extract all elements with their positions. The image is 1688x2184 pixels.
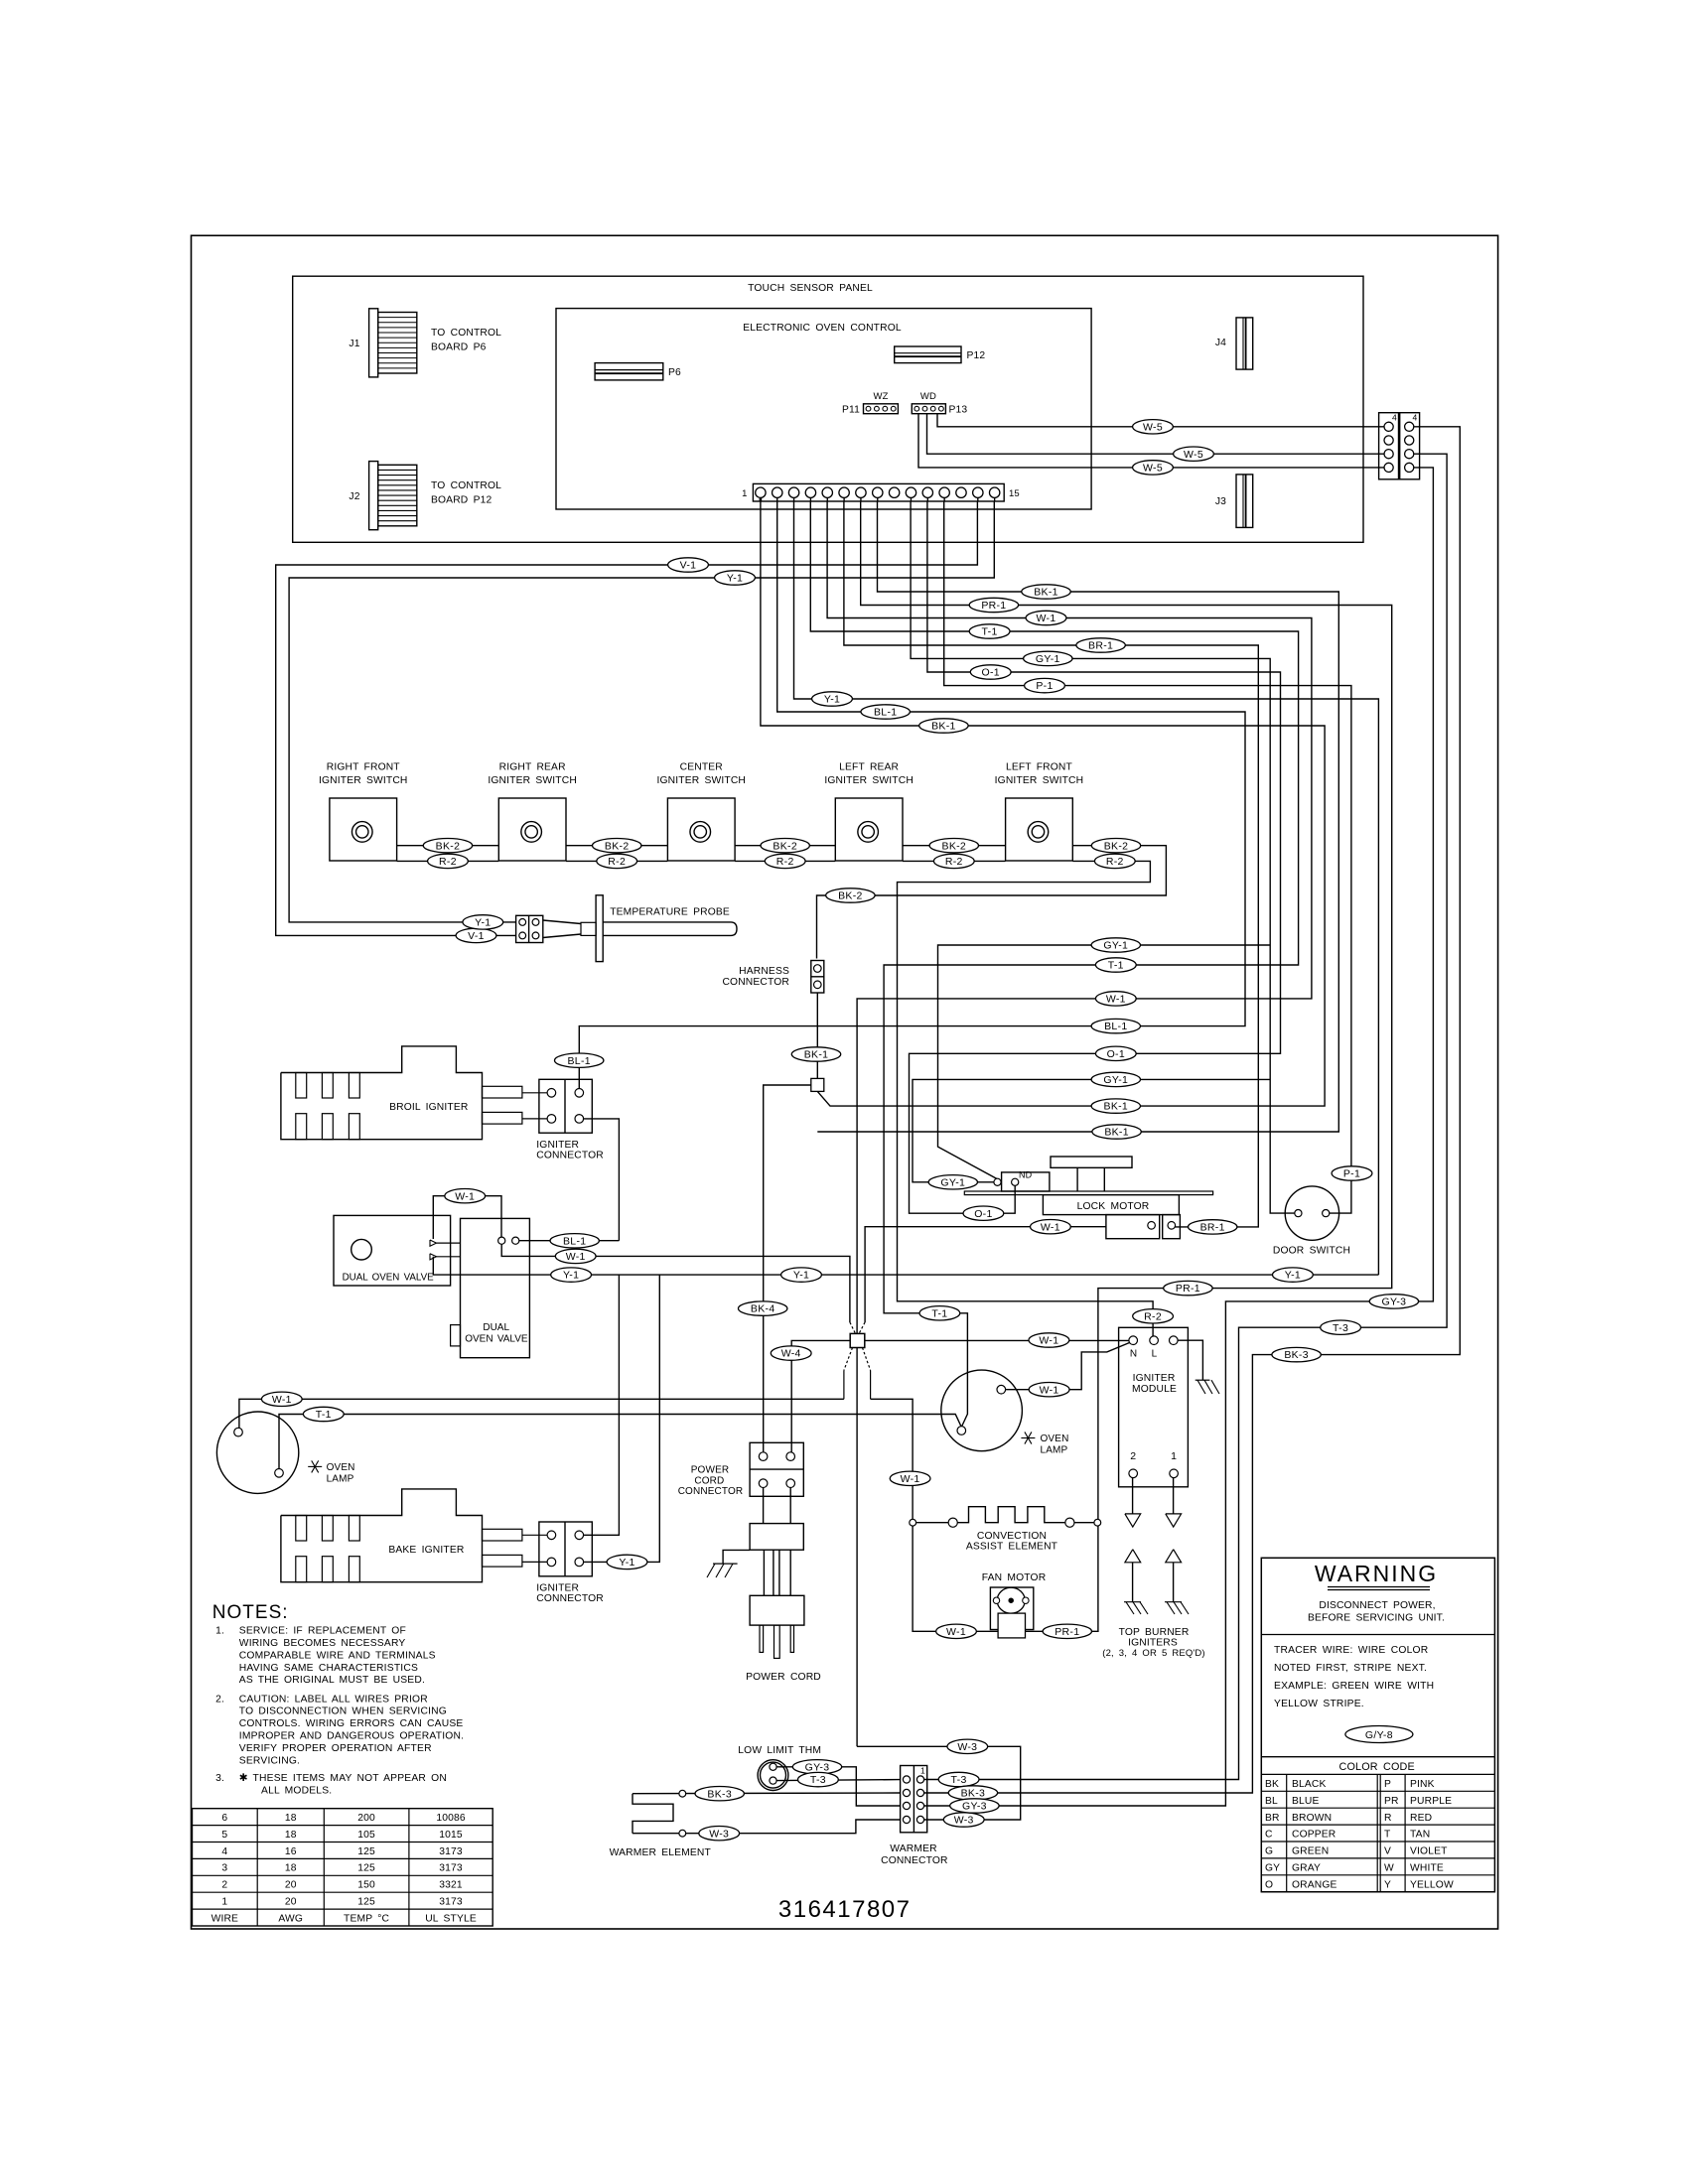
svg-text:BL: BL (1265, 1796, 1278, 1807)
svg-text:T-1: T-1 (316, 1409, 332, 1421)
svg-text:CONTROLS. WIRING ERRORS CAN: CONTROLS. WIRING ERRORS CAN CAUSE (239, 1718, 464, 1729)
svg-text:Y-1: Y-1 (563, 1270, 579, 1282)
label oval BR-1 fanout (1076, 638, 1125, 652)
label 1 (module) (1171, 1450, 1177, 1462)
svg-text:BLUE: BLUE (1292, 1796, 1320, 1807)
igniter module box (1119, 1327, 1189, 1487)
wire P-1 (pin12 to door switch) (944, 501, 1351, 1213)
svg-text:T-3: T-3 (810, 1774, 826, 1786)
svg-text:1: 1 (920, 1766, 925, 1776)
label oval V-1 at probe (456, 928, 496, 942)
label oval W-1 at fan motor (936, 1624, 977, 1638)
svg-text:NOTES:: NOTES: (212, 1602, 289, 1623)
label CENTER IGNITER SWITCH (656, 762, 746, 787)
wire W-1 (right lamp to igniter module N) (1005, 1343, 1130, 1390)
svg-text:W-1: W-1 (566, 1251, 586, 1263)
label WARMER CONNECTOR (881, 1843, 948, 1866)
svg-text:Y-1: Y-1 (619, 1557, 634, 1569)
spark electrode up-triangle left (1125, 1550, 1141, 1563)
svg-text:TOP BURNER: TOP BURNER (1119, 1627, 1190, 1638)
asterisk left lamp (308, 1460, 322, 1472)
svg-text:Y-1: Y-1 (475, 917, 491, 929)
label oval W-1 at lock motor (1031, 1220, 1071, 1234)
label oval R-2 at igniter module (1133, 1309, 1174, 1323)
svg-text:IGNITER SWITCH: IGNITER SWITCH (824, 775, 914, 786)
label J4 (1215, 338, 1226, 348)
svg-text:OVEN: OVEN (1041, 1433, 1069, 1444)
svg-text:O: O (1265, 1879, 1273, 1890)
label POWER CORD (746, 1672, 821, 1683)
wire R-2 (left front switch to igniter module L) (898, 861, 1154, 1336)
temperature probe connector block (516, 915, 543, 942)
svg-text:LOCK MOTOR: LOCK MOTOR (1077, 1201, 1150, 1212)
wire GY-3 (warmer connector to interconnect block) (924, 468, 1433, 1806)
svg-text:2.: 2. (215, 1694, 224, 1705)
right rear igniter switch (498, 798, 566, 861)
note 1 text (215, 1626, 436, 1687)
svg-text:LOW LIMIT THM: LOW LIMIT THM (738, 1745, 821, 1756)
svg-text:4: 4 (1392, 413, 1397, 423)
label HARNESS CONNECTOR (722, 966, 789, 988)
lock motor connector (1106, 1215, 1180, 1239)
svg-text:316417807: 316417807 (778, 1896, 912, 1923)
svg-text:W-1: W-1 (1037, 613, 1056, 624)
connector J4 (1236, 318, 1253, 369)
label DUAL OVEN VALVE 1 (343, 1273, 435, 1284)
svg-text:1: 1 (221, 1897, 227, 1908)
label oval W-3 riser (947, 1739, 988, 1753)
pin stubs below terminal strip (761, 497, 995, 501)
wire W-1 (lock motor to white splice) (859, 1227, 1106, 1335)
wire R-2 segment 2 (566, 860, 667, 862)
wire BK-2 (left front switch to harness connector) (817, 846, 1167, 959)
outer border frame (192, 235, 1498, 1929)
label oval PR-1 right (1164, 1281, 1212, 1295)
wire O-1 (pin11 to lock motor ND) (910, 501, 1281, 1213)
wire ground branch from power cord (723, 1550, 750, 1564)
svg-text:200: 200 (357, 1813, 375, 1824)
label oval V-1 top (668, 558, 709, 572)
svg-text:O-1: O-1 (981, 667, 999, 679)
label oval BL-1 mid row (1091, 1019, 1140, 1032)
label oval R-2 seg4 (933, 854, 974, 868)
svg-text:BLACK: BLACK (1292, 1779, 1327, 1790)
svg-text:BEFORE SERVICING UNIT.: BEFORE SERVICING UNIT. (1308, 1613, 1445, 1624)
svg-text:P-1: P-1 (1343, 1168, 1360, 1180)
junction circle on PR-1 riser (convection right) (1094, 1519, 1101, 1526)
svg-text:OVEN VALVE: OVEN VALVE (465, 1334, 528, 1345)
svg-text:18: 18 (285, 1830, 297, 1841)
label 4 (left block) (1392, 413, 1397, 423)
svg-text:COMPARABLE WIRE AND TERMINALS: COMPARABLE WIRE AND TERMINALS (239, 1650, 436, 1661)
svg-text:EXAMPLE: GREEN WIRE WITH: EXAMPLE: GREEN WIRE WITH (1274, 1681, 1434, 1692)
harness connector (811, 961, 824, 994)
label 15 (pin row right) (1009, 488, 1020, 499)
label oval G/Y-8 example (1345, 1726, 1413, 1743)
label oval P-1 fanout (1025, 678, 1065, 692)
svg-text:T-3: T-3 (1333, 1322, 1348, 1334)
svg-text:TRACER WIRE: WIRE COLOR: TRACER WIRE: WIRE COLOR (1274, 1645, 1428, 1656)
wire BK-3 (warmer element to warmer connector) (633, 1792, 901, 1795)
svg-text:NOTED FIRST, STRIPE NEXT.: NOTED FIRST, STRIPE NEXT. (1274, 1663, 1427, 1674)
svg-text:Y-1: Y-1 (727, 573, 743, 585)
svg-text:VIOLET: VIOLET (1410, 1846, 1448, 1857)
svg-text:WHITE: WHITE (1410, 1863, 1444, 1874)
label oval BK-1 mid row (1091, 1099, 1140, 1113)
wire GY-1 branch to lock motor ND (upper) (938, 945, 1271, 1179)
svg-text:BK-2: BK-2 (773, 840, 797, 852)
label oval W-5 row4 (1133, 461, 1174, 475)
wire burner electrode right to ground (1173, 1563, 1175, 1602)
label CONVECTION ASSIST ELEMENT (966, 1531, 1058, 1553)
svg-text:BL-1: BL-1 (874, 707, 897, 719)
svg-text:J4: J4 (1215, 338, 1226, 348)
svg-text:COLOR CODE: COLOR CODE (1339, 1761, 1415, 1773)
svg-text:RIGHT FRONT: RIGHT FRONT (327, 762, 401, 773)
label 4 (right block) (1413, 413, 1418, 423)
label oval Y-1 rail left (551, 1268, 592, 1282)
svg-text:LAMP: LAMP (1041, 1445, 1068, 1456)
svg-text:GY-3: GY-3 (962, 1801, 987, 1813)
harness interconnect block right half (1400, 413, 1420, 479)
svg-text:3: 3 (221, 1863, 227, 1874)
svg-text:BROWN: BROWN (1292, 1813, 1332, 1824)
EOC terminal strip box (753, 483, 1004, 501)
svg-text:J2: J2 (349, 491, 359, 502)
label RIGHT FRONT IGNITER SWITCH (319, 762, 408, 787)
svg-text:3173: 3173 (439, 1897, 463, 1908)
svg-text:CONNECTOR: CONNECTOR (536, 1593, 604, 1604)
wire bake lead2 to connector (522, 1561, 547, 1563)
wire BK-1 (pin8 to splice node row) (817, 501, 1338, 1132)
svg-text:150: 150 (357, 1880, 375, 1891)
svg-text:WARMER ELEMENT: WARMER ELEMENT (610, 1847, 712, 1858)
connector P6 (595, 363, 663, 380)
svg-text:10086: 10086 (436, 1813, 466, 1824)
wire igniter module aux terminal to ground (1178, 1340, 1202, 1380)
label FAN MOTOR (982, 1572, 1047, 1583)
label oval R-2 seg3 (765, 854, 805, 868)
svg-text:2: 2 (221, 1880, 227, 1891)
label oval GY-1 mid row upper (1091, 938, 1140, 952)
note 2 text (215, 1694, 464, 1766)
svg-text:3321: 3321 (439, 1880, 463, 1891)
igniter module terminals N L aux (1129, 1336, 1178, 1345)
svg-text:IGNITER SWITCH: IGNITER SWITCH (488, 775, 577, 786)
svg-text:W-1: W-1 (1039, 1335, 1058, 1347)
svg-text:105: 105 (357, 1830, 375, 1841)
svg-text:125: 125 (357, 1846, 375, 1857)
svg-text:LEFT FRONT: LEFT FRONT (1006, 762, 1073, 773)
svg-text:GY-3: GY-3 (1382, 1297, 1407, 1308)
svg-text:TOUCH SENSOR PANEL: TOUCH SENSOR PANEL (748, 283, 873, 294)
svg-text:CAUTION: LABEL ALL WIRES PR: CAUTION: LABEL ALL WIRES PRIOR (239, 1694, 428, 1705)
svg-text:DISCONNECT POWER,: DISCONNECT POWER, (1319, 1600, 1435, 1611)
svg-text:BK-2: BK-2 (436, 840, 461, 852)
svg-text:5: 5 (221, 1830, 227, 1841)
spark electrode up-triangle right (1166, 1550, 1182, 1563)
svg-text:BL-1: BL-1 (1104, 1021, 1127, 1032)
svg-text:P11: P11 (842, 405, 860, 416)
label oval W-3 at warmer element (699, 1827, 740, 1841)
label oval BK-4 (739, 1301, 787, 1315)
svg-text:125: 125 (357, 1897, 375, 1908)
label J3 (1215, 496, 1226, 507)
label LOCK MOTOR (1077, 1201, 1150, 1212)
svg-text:O-1: O-1 (974, 1208, 992, 1220)
wire GY-1 (pin10 to door switch) (911, 501, 1295, 1213)
label oval BK-1 below harness (791, 1047, 840, 1061)
svg-text:CONNECTOR: CONNECTOR (536, 1151, 604, 1161)
wire BL-1 (valve2 terminal to blue riser) (519, 1240, 620, 1242)
svg-text:R-2: R-2 (776, 856, 794, 868)
svg-text:WZ: WZ (873, 391, 888, 402)
svg-text:TO CONTROL: TO CONTROL (431, 328, 501, 339)
svg-text:ORANGE: ORANGE (1292, 1879, 1337, 1890)
label oval T-3 at thermostat (798, 1772, 839, 1786)
ground hatch left burner (1124, 1602, 1148, 1614)
terminal circle BK-3 (679, 1790, 686, 1797)
label oval BR-1 at lock motor (1189, 1220, 1237, 1234)
label oval GY-3 warmer right (950, 1799, 999, 1813)
svg-text:IGNITERS: IGNITERS (1128, 1638, 1178, 1649)
note 3 text (215, 1773, 447, 1796)
electronic oven control box (556, 309, 1091, 509)
label oval O-1 mid row (1095, 1046, 1136, 1060)
connector P13 (912, 404, 945, 414)
svg-text:PR-1: PR-1 (981, 600, 1006, 612)
label oval W-1 fanout (1026, 611, 1066, 624)
wire W-3 (warmer element to warmer connector) (633, 1820, 901, 1834)
svg-text:BROIL IGNITER: BROIL IGNITER (389, 1102, 468, 1113)
svg-text:GREEN: GREEN (1292, 1846, 1329, 1857)
wire W-1 (valve2 to white splice) (501, 1244, 856, 1334)
connector J3 (1236, 475, 1253, 528)
junction circle on white riser (convection left) (910, 1519, 916, 1526)
label DOOR SWITCH (1273, 1246, 1350, 1257)
power cord strain block (750, 1524, 803, 1551)
wire burner electrode left to ground (1132, 1563, 1134, 1602)
label oval T-1 fanout (969, 624, 1010, 638)
svg-text:MODULE: MODULE (1132, 1384, 1177, 1395)
svg-text:ALL MODELS.: ALL MODELS. (261, 1786, 332, 1797)
wire stub valve1 terminal2 to valve2 (437, 1256, 461, 1258)
svg-text:CONNECTOR: CONNECTOR (881, 1855, 948, 1866)
svg-text:GY-1: GY-1 (940, 1176, 965, 1188)
svg-text:CORD: CORD (694, 1476, 724, 1487)
label NOTES heading (212, 1602, 289, 1623)
label LOW LIMIT THM (738, 1745, 821, 1756)
svg-text:RED: RED (1410, 1813, 1432, 1824)
label oval BL-1 at valve (550, 1234, 599, 1248)
svg-text:R-2: R-2 (945, 856, 963, 868)
wire bake lead1 to connector (522, 1534, 547, 1536)
wire T-1 (pin4 to oven lamps) (810, 501, 1298, 1428)
wire W-4 (splice to power cord connector pin2) (791, 1340, 850, 1452)
svg-text:WIRE: WIRE (211, 1913, 238, 1924)
label COLOR CODE (1339, 1761, 1415, 1773)
bake igniter (281, 1489, 522, 1582)
svg-text:CENTER: CENTER (680, 762, 723, 773)
svg-text:SERVICE: IF REPLACEMENT OF: SERVICE: IF REPLACEMENT OF (239, 1626, 406, 1637)
svg-text:BL-1: BL-1 (563, 1235, 586, 1247)
label WARNING (1315, 1561, 1438, 1590)
svg-text:TEMPERATURE PROBE: TEMPERATURE PROBE (610, 907, 730, 918)
label IGNITER MODULE (1132, 1373, 1177, 1395)
svg-text:RIGHT REAR: RIGHT REAR (499, 762, 566, 773)
wire W-1 left rail (to left oven lamp) (239, 1399, 844, 1429)
svg-text:AWG: AWG (278, 1913, 303, 1924)
svg-text:ASSIST ELEMENT: ASSIST ELEMENT (966, 1542, 1058, 1553)
svg-text:IGNITER SWITCH: IGNITER SWITCH (656, 775, 746, 786)
label P6 (668, 367, 681, 378)
lock motor body (1043, 1195, 1179, 1215)
svg-text:CONNECTOR: CONNECTOR (678, 1486, 744, 1497)
svg-text:BR: BR (1265, 1813, 1280, 1824)
ground symbol at igniter module (1196, 1380, 1219, 1394)
lock motor stem (1077, 1167, 1104, 1191)
label 2 (module) (1130, 1450, 1136, 1462)
svg-text:DUAL OVEN VALVE: DUAL OVEN VALVE (343, 1273, 435, 1284)
svg-text:CONVECTION: CONVECTION (977, 1531, 1047, 1542)
label oval GY-1 fanout (1024, 651, 1072, 665)
svg-text:BK-4: BK-4 (751, 1303, 775, 1315)
connector P12 (895, 346, 961, 363)
ground hatch right burner (1165, 1602, 1189, 1614)
label oval Y-1 at bake igniter (607, 1555, 647, 1569)
wire BK-2 segment 2 (566, 845, 667, 847)
svg-text:IGNITER: IGNITER (536, 1583, 579, 1594)
label IGNITER CONNECTOR (bake) (536, 1583, 604, 1605)
label oval Y-1 rail mid (781, 1268, 822, 1282)
svg-text:BK-1: BK-1 (931, 721, 956, 733)
svg-text:BR-1: BR-1 (1088, 640, 1113, 652)
svg-text:BOARD P6: BOARD P6 (431, 342, 487, 353)
svg-text:W-3: W-3 (954, 1815, 974, 1827)
svg-text:R-2: R-2 (439, 856, 457, 868)
svg-text:1.: 1. (215, 1626, 224, 1637)
svg-text:HARNESS: HARNESS (739, 966, 789, 977)
svg-text:BK-2: BK-2 (1104, 840, 1129, 852)
svg-text:GY: GY (1265, 1863, 1280, 1874)
wire W-1 (valve1 to valve2) (433, 1196, 501, 1239)
wire W-1 right rail (to convection element and fan) (871, 1399, 999, 1631)
svg-text:COPPER: COPPER (1292, 1830, 1336, 1841)
svg-text:J1: J1 (349, 339, 359, 349)
wire BK-4 (node to power cord connector pin1) (764, 1085, 811, 1452)
svg-text:WARMER: WARMER (890, 1843, 936, 1854)
label WARMER ELEMENT (610, 1847, 712, 1858)
svg-text:TAN: TAN (1410, 1830, 1430, 1841)
label oval W-1 to module N (1029, 1333, 1069, 1347)
wire T-3 (warmer connector to interconnect block) (924, 454, 1447, 1779)
wire R-2 segment 4 (903, 860, 1006, 862)
svg-text:HAVING SAME CHARACTERISTICS: HAVING SAME CHARACTERISTICS (239, 1663, 418, 1674)
svg-text:PURPLE: PURPLE (1410, 1796, 1452, 1807)
svg-text:W-1: W-1 (1040, 1384, 1059, 1396)
asterisk right lamp (1021, 1432, 1035, 1443)
label ND (1019, 1170, 1033, 1180)
svg-text:VERIFY PROPER OPERATION AFTER: VERIFY PROPER OPERATION AFTER (239, 1743, 432, 1754)
power cord prongs (760, 1625, 794, 1658)
label LEFT FRONT IGNITER SWITCH (995, 762, 1084, 787)
svg-text:UL STYLE: UL STYLE (425, 1913, 477, 1924)
svg-text:Y: Y (1384, 1879, 1391, 1890)
label oval O-1 at lock motor (963, 1206, 1004, 1220)
temperature probe body (603, 922, 737, 936)
svg-text:3.: 3. (215, 1773, 224, 1784)
label oval PR-1 at fan motor (1043, 1624, 1091, 1638)
label oval P-1 at door switch (1332, 1166, 1372, 1180)
svg-text:W-5: W-5 (1184, 449, 1203, 461)
svg-text:J3: J3 (1215, 496, 1226, 507)
label oval R-2 seg2 (597, 854, 637, 868)
label J1 (349, 339, 359, 349)
connector J1 (369, 309, 417, 377)
svg-text:P12: P12 (967, 350, 986, 361)
svg-text:LEFT REAR: LEFT REAR (839, 762, 899, 773)
svg-text:W-1: W-1 (1041, 1221, 1060, 1233)
svg-text:BK-3: BK-3 (1284, 1349, 1309, 1361)
svg-text:15: 15 (1009, 488, 1020, 499)
terminal circle W-3 (679, 1830, 686, 1837)
lock motor cap (1051, 1157, 1132, 1167)
wire stub valve1 terminal1 to valve2 (437, 1242, 461, 1244)
svg-text:BK-1: BK-1 (804, 1049, 829, 1061)
label BAKE IGNITER (388, 1545, 464, 1556)
svg-text:BK-2: BK-2 (605, 840, 630, 852)
svg-text:YELLOW STRIPE.: YELLOW STRIPE. (1274, 1699, 1364, 1709)
svg-text:PR-1: PR-1 (1055, 1626, 1079, 1638)
svg-text:IGNITER: IGNITER (536, 1140, 579, 1151)
label ELECTRONIC OVEN CONTROL (743, 323, 902, 334)
label oval W-1 valve splice row (555, 1249, 596, 1263)
label J2 (349, 491, 359, 502)
wire BL-1 (broil connector pin to valve) (584, 1119, 620, 1241)
low limit thermostat (758, 1760, 788, 1791)
svg-text:GRAY: GRAY (1292, 1863, 1321, 1874)
svg-text:P13: P13 (949, 405, 968, 416)
label oval T-1 mid row (1095, 958, 1136, 972)
wire T-1 (left lamp to right lamp) (279, 1415, 961, 1470)
label N (1130, 1349, 1137, 1360)
svg-text:LAMP: LAMP (327, 1474, 354, 1485)
svg-text:PINK: PINK (1410, 1779, 1435, 1790)
label oval R-2 after left front switch (1094, 854, 1135, 868)
label oval BK-2 return to harness (826, 888, 875, 902)
label TEMPERATURE PROBE (610, 907, 730, 918)
svg-text:BK-2: BK-2 (838, 890, 863, 902)
fan motor box (990, 1587, 1033, 1630)
svg-text:BAKE IGNITER: BAKE IGNITER (388, 1545, 464, 1556)
temperature probe taper and neck (543, 920, 596, 938)
right oven lamp (941, 1370, 1023, 1451)
label TOUCH SENSOR PANEL (748, 283, 873, 294)
fan motor mount block (998, 1613, 1025, 1638)
label oval GY-1 at lock motor (928, 1175, 977, 1189)
label P13 (949, 405, 968, 416)
wire BK-1 (pin1 to splice node, via right bundle) (761, 501, 1325, 1106)
svg-text:W-5: W-5 (1143, 463, 1163, 475)
svg-text:20: 20 (285, 1897, 297, 1908)
fan motor symbol (993, 1587, 1029, 1613)
label oval W-5 row1 (1133, 420, 1174, 434)
left front igniter switch (1006, 798, 1073, 861)
svg-text:P: P (1384, 1779, 1391, 1790)
wire R-2 segment 1 (397, 860, 499, 862)
svg-text:Y-1: Y-1 (1285, 1270, 1301, 1282)
tracer wire note text (1274, 1645, 1434, 1709)
